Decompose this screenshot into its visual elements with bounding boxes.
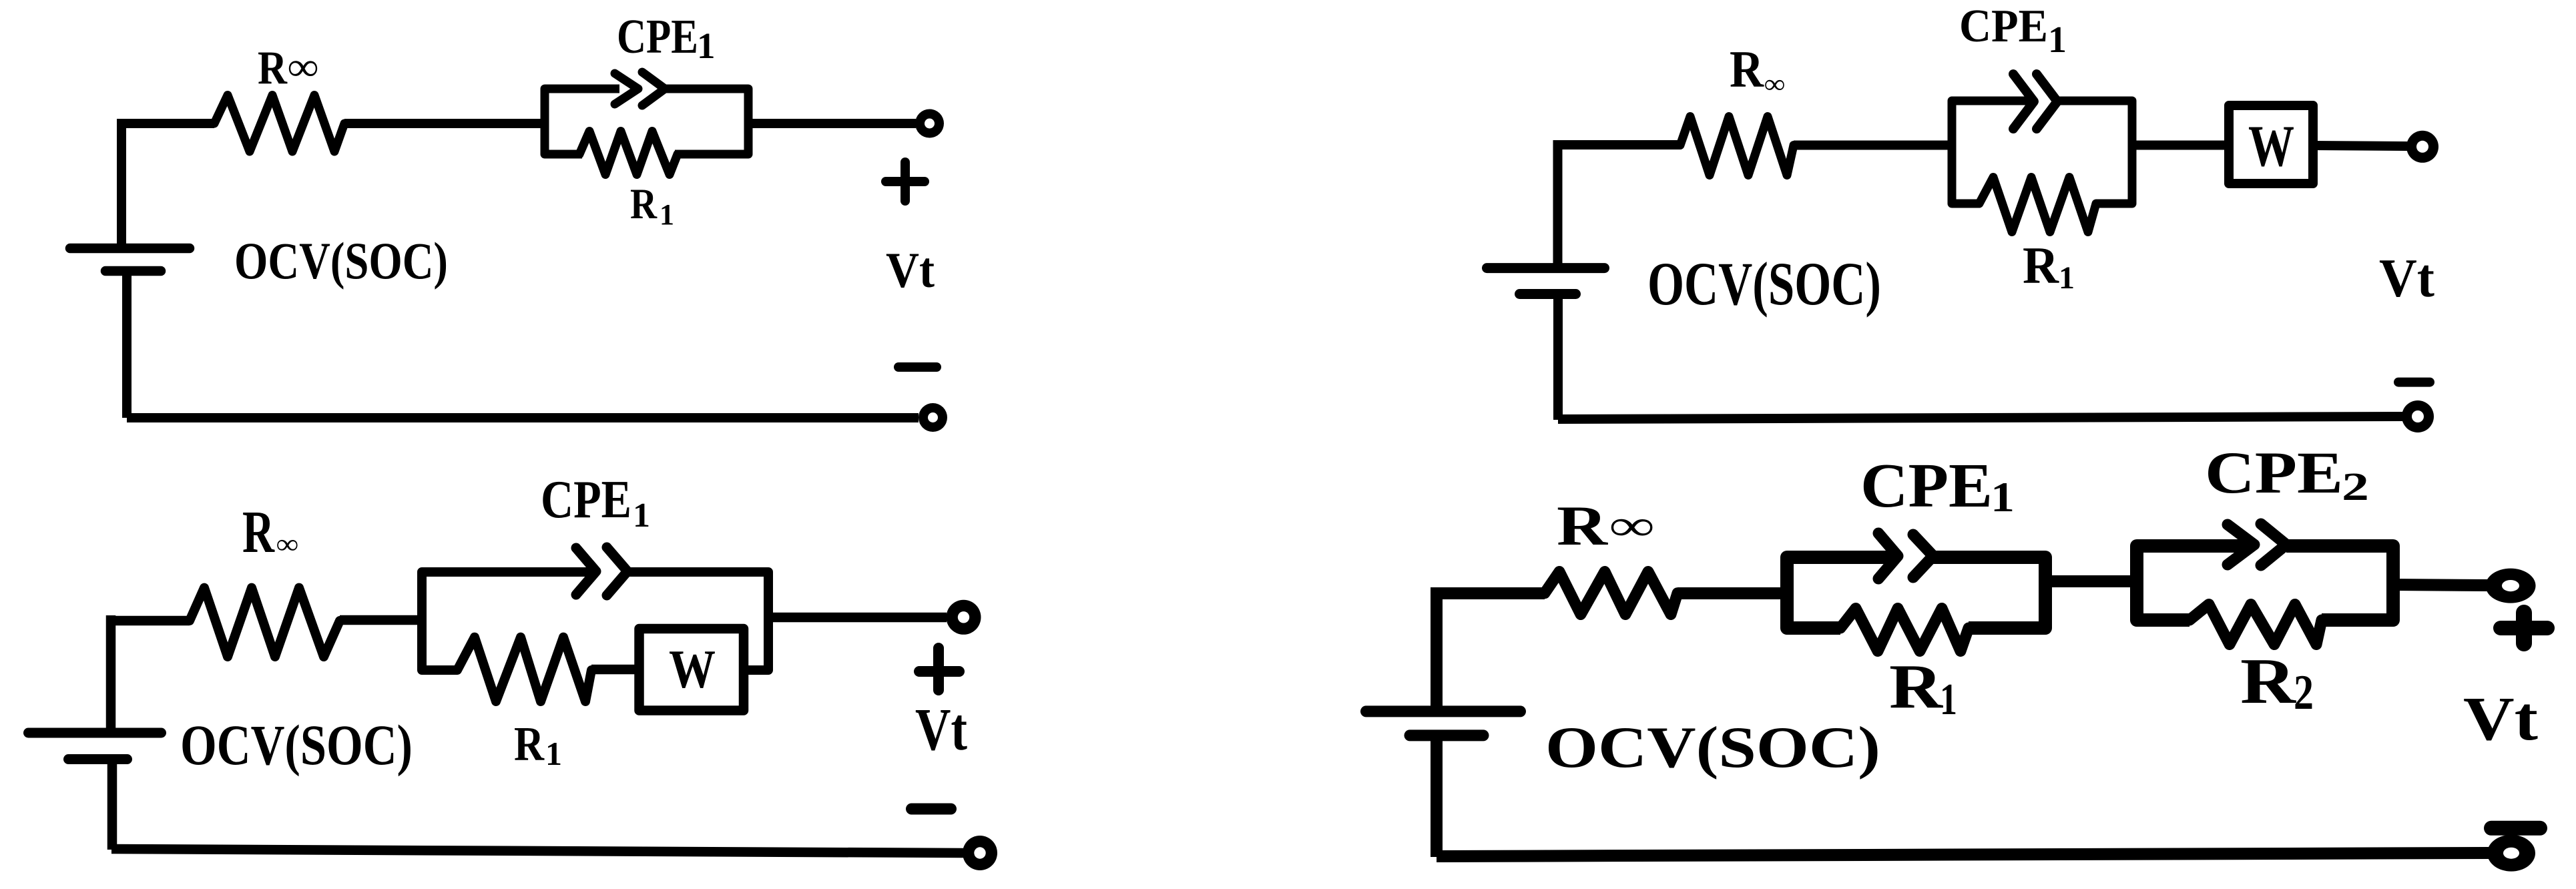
svg-text:OCV(SOC): OCV(SOC) — [1647, 250, 1881, 318]
svg-text:Vt: Vt — [915, 697, 967, 763]
svg-text:1: 1 — [1991, 473, 2015, 521]
svg-text:OCV(SOC): OCV(SOC) — [180, 713, 413, 777]
svg-text:R: R — [258, 42, 288, 94]
svg-text:1: 1 — [545, 735, 562, 772]
svg-text:R: R — [2240, 645, 2296, 717]
svg-text:R: R — [630, 180, 658, 228]
svg-text:OCV(SOC): OCV(SOC) — [1545, 715, 1880, 780]
svg-text:∞: ∞ — [288, 45, 318, 89]
svg-text:CPE: CPE — [2205, 440, 2343, 506]
svg-text:1: 1 — [660, 198, 674, 231]
svg-text:∞: ∞ — [1609, 502, 1654, 550]
svg-text:∞: ∞ — [1764, 69, 1785, 99]
svg-text:W: W — [669, 639, 716, 699]
svg-text:1: 1 — [1940, 675, 1957, 724]
svg-text:∞: ∞ — [276, 529, 298, 560]
svg-text:OCV(SOC): OCV(SOC) — [234, 232, 448, 290]
svg-text:1: 1 — [2048, 19, 2067, 61]
svg-text:R: R — [2023, 236, 2060, 294]
svg-text:1: 1 — [633, 497, 650, 535]
svg-text:W: W — [2248, 114, 2294, 179]
svg-text:CPE: CPE — [1860, 451, 1993, 521]
svg-text:1: 1 — [2059, 260, 2075, 296]
svg-text:Vt: Vt — [886, 243, 935, 298]
svg-text:1: 1 — [697, 25, 716, 66]
svg-text:R: R — [1889, 652, 1943, 721]
svg-text:2: 2 — [2294, 665, 2314, 720]
svg-text:CPE: CPE — [1959, 1, 2048, 52]
svg-text:R: R — [1557, 495, 1609, 557]
svg-text:R: R — [514, 717, 545, 771]
svg-text:R: R — [242, 499, 275, 565]
svg-text:2: 2 — [2342, 465, 2369, 509]
svg-text:R: R — [1730, 40, 1764, 98]
svg-text:CPE: CPE — [541, 469, 631, 529]
svg-text:CPE: CPE — [617, 9, 698, 63]
svg-text:Vt: Vt — [2463, 685, 2538, 754]
svg-text:Vt: Vt — [2379, 248, 2434, 308]
